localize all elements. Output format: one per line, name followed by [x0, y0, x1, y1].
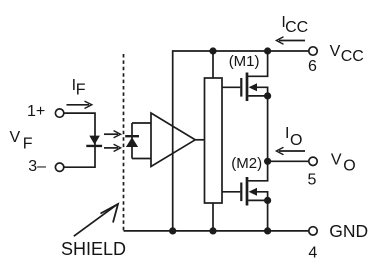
svg-text:GND: GND	[329, 221, 368, 241]
svg-text:V: V	[331, 152, 342, 169]
svg-text:(M2): (M2)	[231, 155, 262, 172]
svg-text:I: I	[285, 125, 289, 142]
svg-text:F: F	[76, 81, 86, 98]
svg-text:(M1): (M1)	[229, 53, 260, 70]
svg-text:6: 6	[308, 58, 317, 75]
svg-text:V: V	[330, 43, 341, 60]
svg-text:1+: 1+	[27, 103, 45, 120]
svg-text:5: 5	[308, 171, 317, 188]
svg-text:CC: CC	[341, 48, 364, 65]
svg-text:F: F	[23, 135, 33, 152]
svg-text:O: O	[343, 157, 355, 174]
svg-text:O: O	[290, 132, 302, 149]
svg-text:4: 4	[308, 245, 317, 262]
svg-text:SHIELD: SHIELD	[61, 239, 126, 259]
svg-text:V: V	[10, 129, 21, 146]
svg-text:CC: CC	[285, 19, 308, 36]
svg-text:3–: 3–	[28, 158, 46, 175]
